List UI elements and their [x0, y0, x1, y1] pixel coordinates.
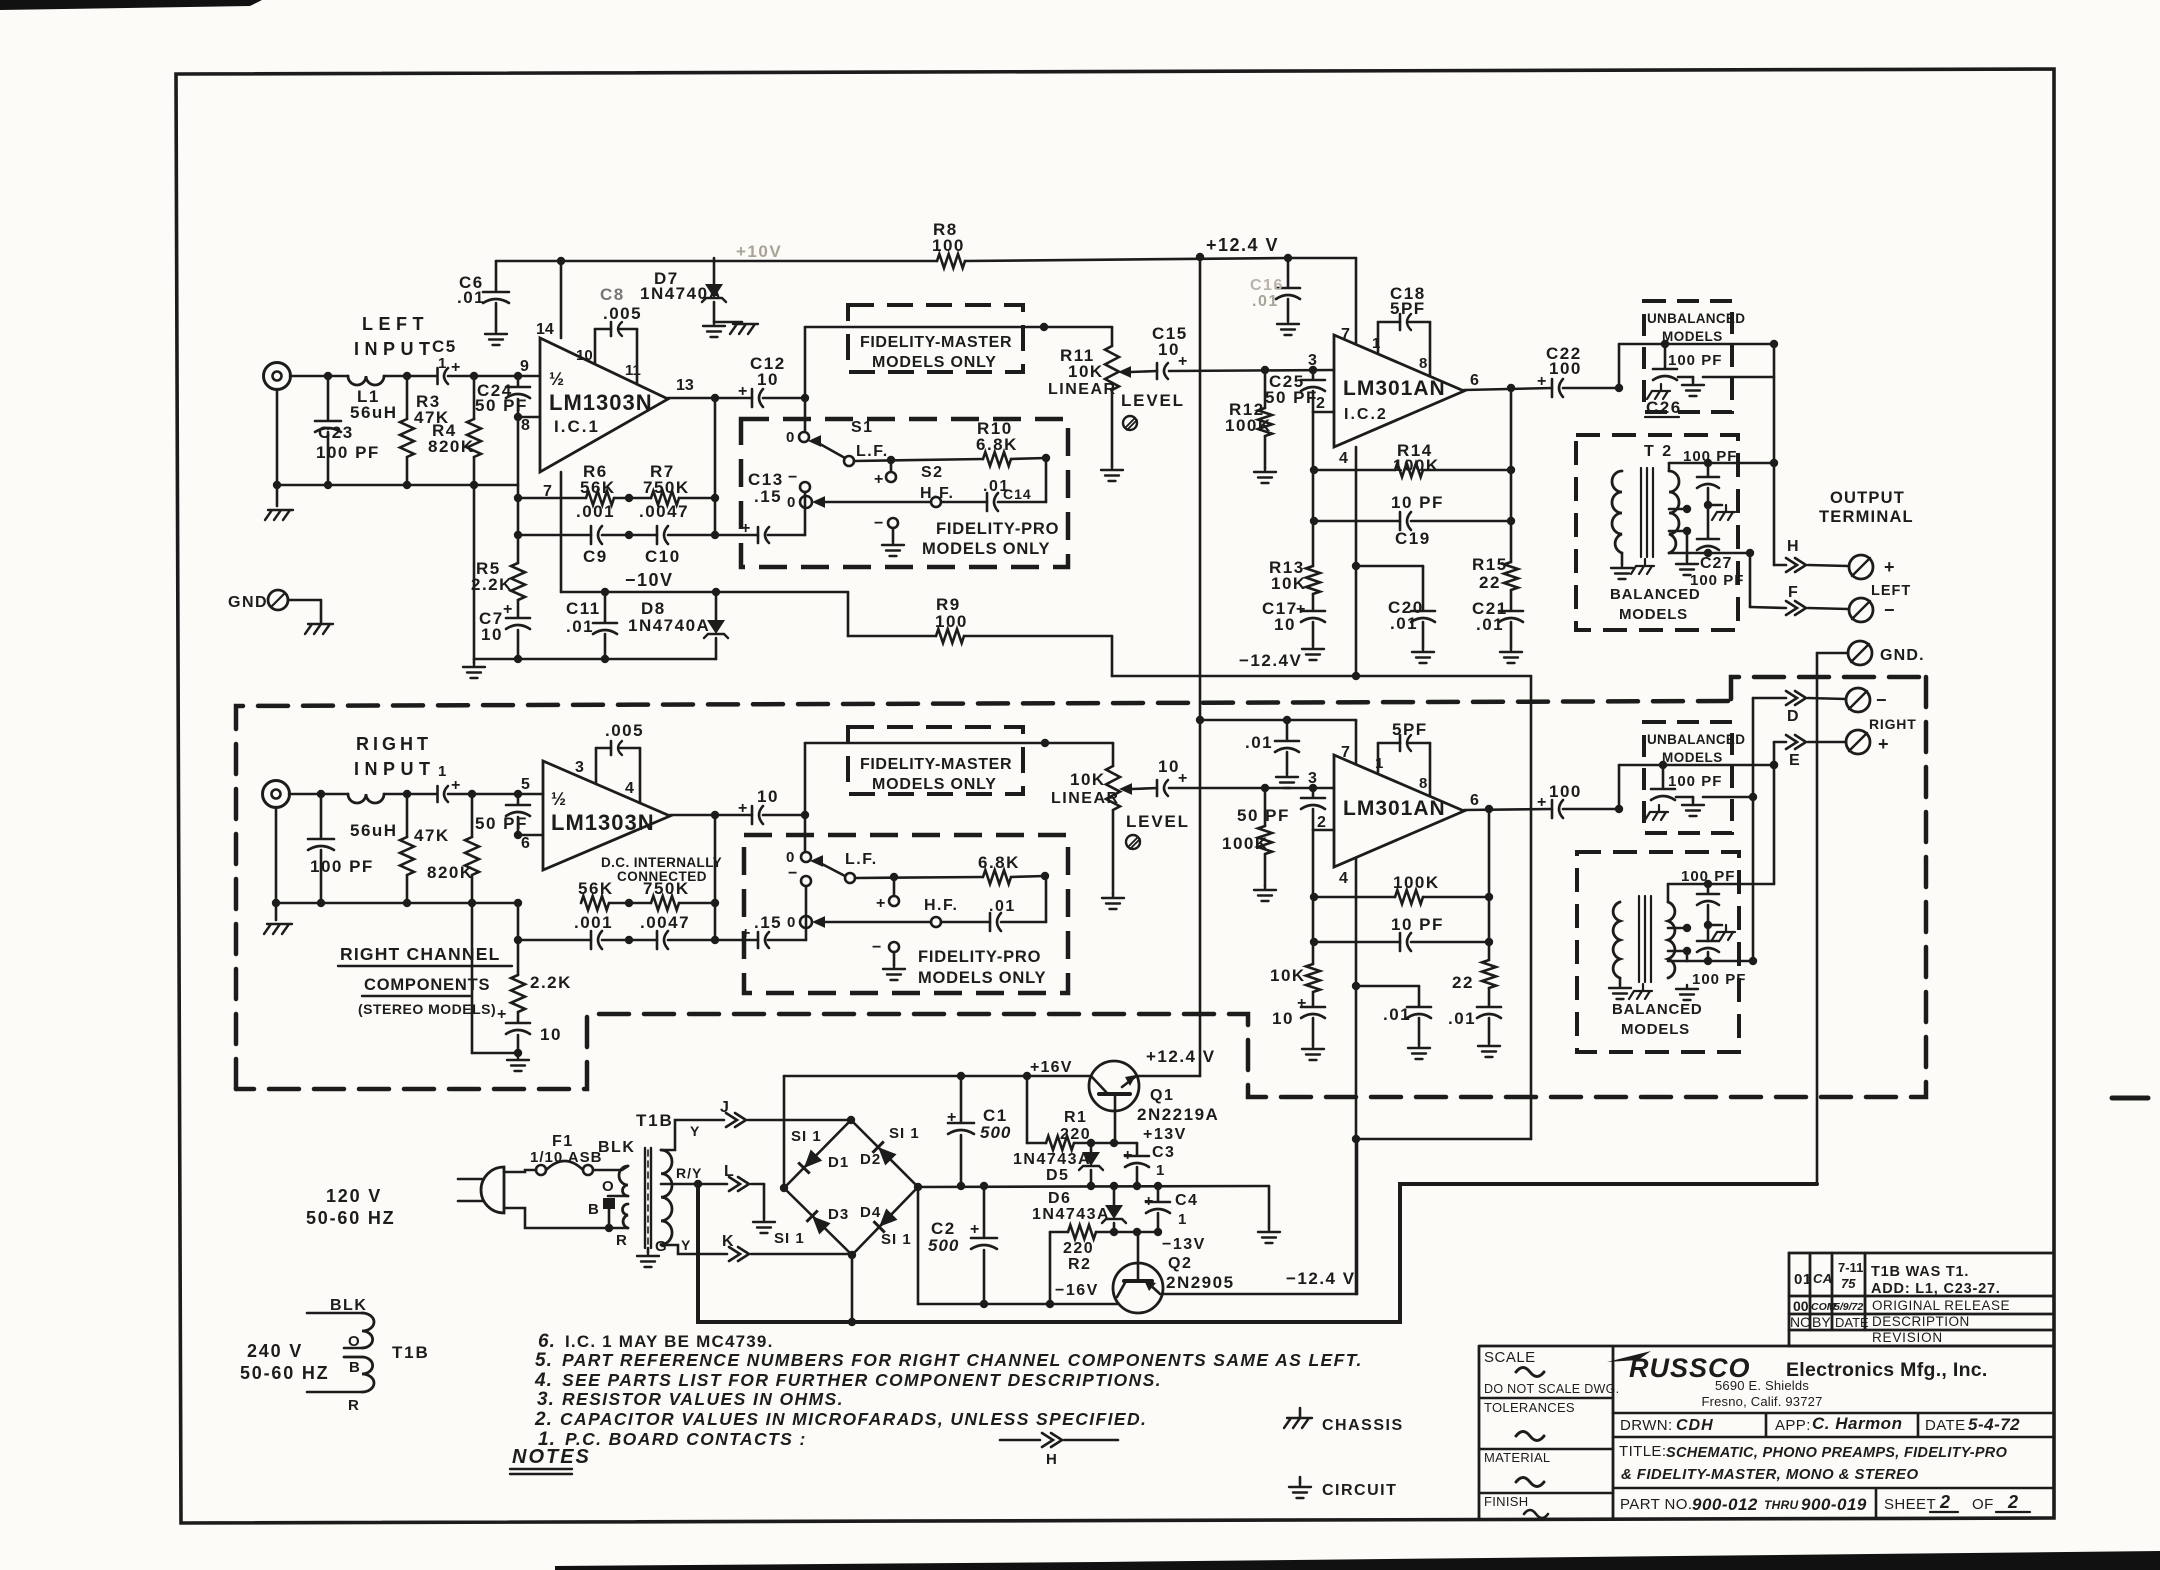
transformer T2b primary coil: [1613, 902, 1620, 978]
T2b primary ground: [1619, 978, 1622, 984]
svg-text:I.C.1: I.C.1: [554, 417, 600, 436]
op-amp IC1b LM1303N (right): [543, 761, 670, 870]
IC2 inverting input chain R13 C17: [1312, 412, 1315, 566]
svg-text:10: 10: [757, 370, 779, 389]
H contact row: [1774, 564, 1786, 567]
wire pin2 IC2b: [1313, 829, 1334, 832]
capacitor 10PF feedback right: [1314, 941, 1400, 944]
transistor Q2 2N2905: [1113, 1263, 1163, 1313]
svg-text:10 PF: 10 PF: [1391, 493, 1444, 512]
svg-text:22: 22: [1452, 973, 1474, 992]
svg-text:+: +: [1537, 373, 1546, 390]
capacitor C24 50PF: [506, 386, 530, 389]
svg-text:Y: Y: [690, 1123, 700, 1139]
core ground G: [647, 1248, 650, 1252]
svg-text:DATE: DATE: [1835, 1315, 1869, 1330]
T1B core: [645, 1148, 651, 1248]
wire unbalanced gnd row right: [1703, 796, 1753, 799]
capacitor C20 .01: [1356, 565, 1423, 568]
title block left column dividers: [1479, 1398, 1613, 1493]
capacitor C5 1uF: [436, 368, 439, 384]
svg-text:(STEREO MODELS): (STEREO MODELS): [358, 1001, 496, 1017]
svg-text:P.C. BOARD CONTACTS :: P.C. BOARD CONTACTS :: [565, 1429, 807, 1449]
capacitor C21 .01: [1499, 610, 1523, 613]
svg-text:500: 500: [980, 1123, 1011, 1142]
svg-text:6: 6: [1470, 792, 1479, 809]
svg-text:+13V: +13V: [1143, 1126, 1187, 1143]
svg-text:6.8K: 6.8K: [976, 435, 1018, 454]
svg-text:TERMINAL: TERMINAL: [1819, 508, 1914, 526]
svg-text:SHEET: SHEET: [1884, 1496, 1936, 1513]
revision table: [1789, 1253, 2054, 1346]
svg-text:RIGHT CHANNEL: RIGHT CHANNEL: [340, 944, 500, 964]
switch common right: [893, 877, 896, 896]
svg-text:−10V: −10V: [625, 570, 674, 590]
wire 100 node up to unbalanced line right: [1618, 765, 1621, 809]
svg-text:2: 2: [1939, 1492, 1950, 1512]
long +12.4V vertical: [1199, 257, 1202, 720]
svg-text:−: −: [874, 515, 883, 532]
inductor 56uH right: [348, 794, 384, 803]
svg-text:FIDELITY-PRO: FIDELITY-PRO: [936, 520, 1059, 538]
svg-text:7-11: 7-11: [1838, 1260, 1863, 1275]
svg-text:1N4743A: 1N4743A: [1032, 1206, 1110, 1223]
svg-text:100K: 100K: [1225, 416, 1272, 435]
svg-text:1: 1: [1156, 1162, 1164, 1179]
svg-text:ADD: L1, C23-27.: ADD: L1, C23-27.: [1871, 1281, 2001, 1297]
svg-text:220: 220: [1060, 1126, 1091, 1143]
svg-text:0: 0: [786, 429, 794, 446]
svg-text:RIGHT: RIGHT: [356, 734, 432, 754]
svg-text:MODELS: MODELS: [1662, 329, 1723, 344]
svg-text:+: +: [738, 800, 747, 817]
svg-text:100K: 100K: [1393, 873, 1440, 892]
right channel components dashed outline: [236, 701, 1731, 1089]
svg-text:½: ½: [549, 369, 564, 389]
wire C10 row to C13: [715, 534, 758, 537]
svg-text:.01: .01: [566, 617, 594, 636]
ground at L: [763, 1184, 766, 1218]
svg-text:MODELS ONLY: MODELS ONLY: [922, 540, 1050, 558]
capacitor C6 .01: [495, 261, 498, 291]
capacitor .01 right C21: [1477, 1006, 1501, 1009]
T2 secondary bottom wire: [1669, 552, 1750, 555]
svg-text:+16V: +16V: [1030, 1059, 1073, 1076]
legend chassis ground: [1284, 1418, 1312, 1428]
E contact vertical: [1773, 742, 1776, 884]
svg-text:LM1303N: LM1303N: [551, 810, 655, 835]
svg-text:4: 4: [1339, 870, 1348, 887]
wire to cap right: [384, 793, 436, 796]
svg-text:+12.4 V: +12.4 V: [1206, 235, 1279, 255]
ground bus left channel: [473, 485, 476, 659]
svg-text:F: F: [1788, 584, 1799, 601]
svg-text:3.: 3.: [537, 1389, 555, 1410]
balanced models dashed box (right): [1577, 852, 1739, 1052]
svg-text:.001: .001: [576, 502, 615, 521]
svg-text:56K: 56K: [578, 879, 614, 898]
output node vertical: [714, 398, 717, 535]
zener diode D8 1N4740A: [715, 592, 718, 620]
chassis ground right of D7: [714, 321, 742, 324]
resistor R14 100K feedback: [1314, 469, 1395, 472]
svg-text:MODELS ONLY: MODELS ONLY: [872, 776, 997, 793]
svg-text:+: +: [1878, 734, 1889, 754]
svg-text:47K: 47K: [414, 826, 450, 845]
svg-text:50 PF: 50 PF: [1237, 806, 1290, 825]
svg-text:750K: 750K: [643, 879, 690, 898]
wire unbalanced gnd row to main vertical: [1703, 376, 1774, 379]
circuit ground below bus: [473, 659, 476, 663]
wire node9 to IC1 pin9: [518, 375, 540, 378]
svg-text:S1: S1: [851, 419, 874, 436]
svg-text:C23: C23: [318, 423, 354, 442]
svg-text:SI 1: SI 1: [881, 1231, 912, 1248]
main ground return bus: [698, 1184, 1817, 1322]
svg-text:L.F.: L.F.: [845, 851, 878, 868]
wire up to fidelity-master right: [804, 743, 807, 815]
svg-text:T1B: T1B: [392, 1343, 430, 1362]
svg-text:56uH: 56uH: [350, 403, 398, 422]
wire rail to IC1 pin14: [560, 261, 563, 338]
plug bottom wire: [504, 1208, 628, 1228]
svg-text:TOLERANCES: TOLERANCES: [1484, 1400, 1575, 1415]
op-amp IC1 LM1303N (left): [540, 338, 668, 472]
RCA jack J1 left input: [264, 363, 291, 390]
resistor R6 56K: [586, 491, 614, 505]
resistor R7 750K: [651, 491, 679, 505]
wire L1 to C5: [384, 375, 436, 378]
svg-text:C9: C9: [583, 547, 608, 566]
svg-text:BALANCED: BALANCED: [1612, 1001, 1703, 1018]
potentiometer 10K LINEAR right: [1112, 743, 1115, 766]
svg-text:2: 2: [1317, 814, 1326, 831]
T2b core ground: [1629, 984, 1652, 999]
chassis ground right input: [275, 903, 278, 920]
svg-text:100 PF: 100 PF: [1681, 868, 1735, 885]
feedback capacitor C8 .005 loop: [594, 329, 597, 363]
-12.4V rail to right side: [1111, 636, 1114, 676]
svg-text:−: −: [1876, 690, 1887, 710]
svg-text:+: +: [947, 1109, 956, 1126]
svg-text:900-019: 900-019: [1801, 1495, 1867, 1514]
svg-text:NO: NO: [1790, 1314, 1811, 1330]
capacitor C13 .15: [757, 527, 760, 543]
svg-text:100: 100: [932, 236, 965, 255]
svg-text:C16: C16: [1250, 277, 1284, 294]
svg-text:+: +: [503, 601, 512, 618]
svg-text:6: 6: [521, 835, 530, 852]
svg-text:+: +: [876, 895, 885, 912]
svg-text:+: +: [497, 1006, 506, 1023]
transformer T2b core: [1639, 896, 1651, 982]
svg-text:+: +: [1296, 601, 1305, 618]
svg-text:½: ½: [551, 789, 566, 809]
wire up to fidelity-master feed: [804, 327, 807, 398]
svg-text:LEVEL: LEVEL: [1126, 812, 1190, 831]
RCA jack right input: [263, 781, 290, 808]
svg-text:10: 10: [540, 1025, 562, 1044]
right - terminal: [1846, 688, 1870, 712]
svg-text:.15: .15: [754, 913, 782, 932]
capacitor 10uF right bias: [506, 1022, 530, 1025]
svg-text:R: R: [616, 1232, 627, 1249]
circuit ground right unbalanced: [1676, 796, 1693, 799]
svg-text:Q2: Q2: [1168, 1255, 1192, 1272]
svg-text:LEFT: LEFT: [1871, 583, 1911, 599]
lower feedback row C9 C10: [518, 534, 591, 537]
transformer T2 core: [1641, 468, 1653, 557]
AC plug: [481, 1167, 504, 1213]
svg-text:4: 4: [1339, 450, 1348, 467]
svg-text:100 PF: 100 PF: [1668, 773, 1722, 790]
bridge rectifier diamond: [784, 1120, 918, 1255]
svg-text:.01: .01: [1252, 293, 1279, 310]
right output chain 22 .01: [1488, 809, 1491, 960]
svg-text:6: 6: [1470, 372, 1479, 389]
capacitor .15 right: [757, 932, 760, 948]
scan artifact bottom black strip: [555, 1551, 2160, 1570]
svg-text:2.2K: 2.2K: [471, 575, 513, 594]
svg-text:−: −: [1884, 600, 1895, 620]
resistor 100K feedback right: [1314, 896, 1395, 899]
svg-text:CAPACITOR VALUES IN MICROFARAD: CAPACITOR VALUES IN MICROFARADS, UNLESS …: [560, 1409, 1147, 1429]
output node chain R15 C21: [1510, 388, 1513, 562]
capacitor C17 10uF: [1301, 610, 1325, 613]
svg-text:Y: Y: [681, 1237, 691, 1253]
svg-text:SI 1: SI 1: [889, 1125, 920, 1142]
capacitor C15 10uF: [1156, 363, 1159, 379]
svg-text:.01: .01: [1390, 614, 1418, 633]
balanced models dashed box T2 (left): [1576, 435, 1738, 630]
mid rail ground: [1268, 1186, 1271, 1228]
svg-text:100K: 100K: [1393, 456, 1440, 475]
wire C22 node up to unbalanced line: [1618, 344, 1621, 388]
svg-text:D1: D1: [828, 1154, 849, 1171]
svg-text:ORIGINAL RELEASE: ORIGINAL RELEASE: [1872, 1298, 2010, 1313]
resistor R4 820K: [473, 376, 476, 419]
capacitor C12 10uF: [751, 389, 754, 407]
svg-text:.0047: .0047: [639, 502, 689, 521]
svg-text:+: +: [1297, 995, 1306, 1012]
wire wiper to IC2b pin3: [1169, 787, 1334, 790]
svg-text:R2: R2: [1068, 1256, 1091, 1273]
svg-text:I.C.2: I.C.2: [1344, 406, 1388, 423]
svg-text:LEFT: LEFT: [362, 314, 429, 334]
svg-text:D.C. INTERNALLY: D.C. INTERNALLY: [601, 855, 722, 870]
svg-text:.01: .01: [1383, 1005, 1411, 1024]
svg-text:UNBALANCED: UNBALANCED: [1647, 311, 1745, 326]
svg-text:1: 1: [438, 763, 446, 780]
L contact row: [698, 1183, 727, 1186]
feedback capacitor .005 loop right: [595, 748, 598, 784]
wire to 50PF node right: [448, 793, 518, 796]
svg-text:Fresno, Calif. 93727: Fresno, Calif. 93727: [1701, 1394, 1822, 1409]
svg-text:CDH: CDH: [1676, 1417, 1714, 1434]
svg-text:C8: C8: [600, 285, 625, 304]
T2b center tap dots: [1683, 924, 1691, 932]
svg-text:5PF: 5PF: [1392, 720, 1428, 739]
FIDELITY-MASTER dashed box (right): [848, 727, 1023, 794]
svg-text:FIDELITY-MASTER: FIDELITY-MASTER: [860, 756, 1012, 773]
svg-text:C27: C27: [1700, 555, 1732, 572]
secondary top tap to J: [661, 1120, 724, 1150]
svg-text:.005: .005: [603, 304, 642, 323]
svg-text:100: 100: [935, 612, 968, 631]
svg-text:13: 13: [676, 377, 694, 394]
svg-text:INPUT: INPUT: [354, 339, 436, 359]
svg-text:6.: 6.: [538, 1331, 556, 1352]
chassis bracket ground (T2 mid): [1708, 504, 1722, 507]
scan artifact top-left black strip: [0, 0, 262, 10]
svg-text:−12.4V: −12.4V: [1239, 651, 1302, 670]
svg-text:0: 0: [787, 914, 795, 931]
svg-text:.01: .01: [1476, 615, 1504, 634]
svg-text:MODELS: MODELS: [1662, 750, 1723, 765]
FIDELITY-PRO dashed box (left): [741, 419, 1068, 567]
svg-text:FIDELITY-MASTER: FIDELITY-MASTER: [860, 334, 1012, 351]
wiper arrow right: [1119, 783, 1132, 795]
svg-text:100 PF: 100 PF: [1690, 572, 1744, 589]
right ground bus: [471, 903, 474, 1053]
resistor R9 100 path: [847, 592, 850, 636]
lower feedback row .001 .0047 right: [518, 939, 591, 942]
right output node vertical: [714, 815, 717, 940]
svg-text:220: 220: [1063, 1240, 1094, 1257]
F contact row: [1749, 553, 1752, 607]
svg-text:.0047: .0047: [640, 913, 690, 932]
svg-text:FIDELITY-PRO: FIDELITY-PRO: [918, 948, 1041, 966]
capacitor C19 10PF feedback: [1314, 520, 1400, 523]
capacitor C2 500: [983, 1186, 986, 1237]
diode D3: [806, 1210, 830, 1234]
svg-text:R: R: [348, 1397, 359, 1414]
resistor R1 220: [1026, 1076, 1029, 1143]
svg-text:B: B: [349, 1359, 360, 1376]
svg-text:2N2905: 2N2905: [1166, 1273, 1235, 1292]
svg-text:D4: D4: [860, 1204, 881, 1221]
K contact chevrons: [729, 1247, 749, 1261]
svg-text:+: +: [1123, 1147, 1132, 1164]
svg-text:B: B: [588, 1201, 599, 1218]
svg-text:RESISTOR VALUES IN OHMS.: RESISTOR VALUES IN OHMS.: [562, 1389, 844, 1409]
resistor 100K right input bias: [1264, 788, 1267, 826]
feedback row R6 R7: [518, 497, 586, 500]
op-amp IC2 LM301AN (left): [1334, 335, 1464, 447]
svg-text:−: −: [788, 865, 797, 882]
capacitor C11 .01: [604, 592, 607, 622]
svg-text:SCALE: SCALE: [1484, 1349, 1536, 1366]
input ground return wire: [276, 389, 279, 485]
wire down to S1: [804, 398, 807, 432]
svg-text:MODELS: MODELS: [1621, 1021, 1690, 1038]
capacitor 10uF right chain: [1301, 1006, 1325, 1009]
svg-text:MATERIAL: MATERIAL: [1484, 1450, 1550, 1465]
svg-text:DATE: DATE: [1925, 1417, 1966, 1434]
svg-text:C19: C19: [1395, 529, 1431, 548]
svg-text:MODELS ONLY: MODELS ONLY: [872, 354, 997, 371]
svg-text:C5: C5: [432, 337, 457, 356]
capacitor 1uF right: [436, 786, 439, 802]
svg-text:REVISION: REVISION: [1872, 1330, 1943, 1345]
svg-text:2.: 2.: [534, 1409, 553, 1430]
svg-text:.01: .01: [1448, 1009, 1476, 1028]
Q1 base wire: [1114, 1111, 1117, 1143]
svg-text:OF: OF: [1972, 1496, 1994, 1513]
FIDELITY-PRO dashed box (right): [744, 835, 1068, 993]
wire pin2: [1313, 411, 1334, 414]
svg-text:50-60 HZ: 50-60 HZ: [240, 1363, 329, 1383]
svg-text:H.F.: H.F.: [920, 485, 954, 502]
svg-text:S2: S2: [921, 464, 944, 481]
T2b secondary top wire: [1667, 884, 1670, 902]
svg-text:5690 E. Shields: 5690 E. Shields: [1715, 1378, 1809, 1393]
feedback capacitor 5PF loop right: [1377, 743, 1380, 772]
svg-text:10 PF: 10 PF: [1391, 915, 1444, 934]
svg-text:7: 7: [1341, 744, 1350, 761]
svg-text:2: 2: [1316, 395, 1325, 412]
svg-text:MODELS ONLY: MODELS ONLY: [918, 969, 1046, 987]
svg-text:.01: .01: [1245, 733, 1273, 752]
svg-text:820K: 820K: [428, 437, 475, 456]
T2b secondary bottom wire: [1668, 960, 1753, 963]
T1B secondary winding: [661, 1150, 672, 1244]
D contact row: [1753, 697, 1786, 700]
capacitor C4 1uF: [1157, 1186, 1160, 1201]
unbalanced models dashed box (right): [1644, 722, 1732, 833]
capacitor 50PF right: [506, 804, 530, 807]
svg-text:10K: 10K: [1271, 574, 1307, 593]
svg-text:BALANCED: BALANCED: [1610, 586, 1701, 603]
svg-text:10: 10: [576, 347, 593, 364]
svg-text:+: +: [874, 471, 883, 488]
resistor R2 220: [1050, 1231, 1068, 1234]
wire C15 to IC2 pin3: [1169, 370, 1334, 371]
svg-text:DO NOT SCALE DWG.: DO NOT SCALE DWG.: [1484, 1382, 1619, 1396]
svg-text:MODELS: MODELS: [1619, 606, 1688, 623]
capacitor C22 100uF: [1551, 379, 1554, 397]
resistor R10 6.8K: [983, 452, 1011, 466]
svg-text:C3: C3: [1152, 1144, 1175, 1161]
svg-text:PART NO.: PART NO.: [1620, 1496, 1692, 1513]
svg-text:01: 01: [1794, 1271, 1812, 1288]
T2 primary ground: [1621, 553, 1624, 564]
svg-text:10K: 10K: [1070, 770, 1106, 789]
svg-text:3: 3: [1308, 352, 1317, 369]
right +12.4V rail stub: [1200, 719, 1356, 722]
svg-text:10: 10: [481, 625, 503, 644]
svg-text:.15: .15: [754, 487, 782, 506]
svg-text:1/10 ASB: 1/10 ASB: [530, 1149, 602, 1166]
zener diode D7: [713, 258, 716, 284]
feedback capacitor C18 5PF loop: [1377, 322, 1380, 352]
svg-text:O: O: [602, 1178, 614, 1195]
zener D6 1N4743A: [1113, 1186, 1116, 1205]
capacitor C23 100PF: [327, 376, 330, 420]
capacitor 100PF right input: [320, 794, 323, 838]
wire jack to L1: [290, 375, 348, 378]
T2b center tap ground: [1676, 985, 1698, 1000]
right + terminal: [1846, 730, 1870, 754]
svg-text:+: +: [1144, 1193, 1153, 1210]
svg-text:100 PF: 100 PF: [1683, 448, 1737, 465]
Q2 emitter to -12.4V: [1160, 1293, 1357, 1296]
svg-text:8: 8: [1419, 355, 1427, 372]
svg-text:LM1303N: LM1303N: [549, 390, 653, 415]
mid supply rail: [918, 1186, 1269, 1187]
chassis ground under C26: [1647, 384, 1670, 399]
240V transformer primary alt: [307, 1312, 362, 1315]
